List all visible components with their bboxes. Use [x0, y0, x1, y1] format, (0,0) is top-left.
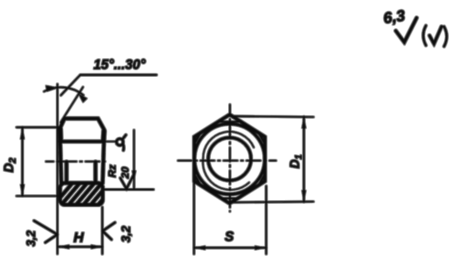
svg-text:6,3: 6,3 — [382, 8, 406, 28]
svg-text:D2: D2 — [1, 157, 19, 172]
svg-text:3,2: 3,2 — [26, 230, 38, 247]
svg-text:S: S — [225, 229, 234, 244]
svg-text:15°...30°: 15°...30° — [93, 57, 146, 72]
svg-text:3,2: 3,2 — [119, 225, 133, 242]
svg-text:Rz: Rz — [107, 164, 119, 178]
svg-text:H: H — [73, 229, 84, 245]
svg-text:D1: D1 — [288, 154, 304, 168]
svg-text:20: 20 — [120, 167, 132, 180]
